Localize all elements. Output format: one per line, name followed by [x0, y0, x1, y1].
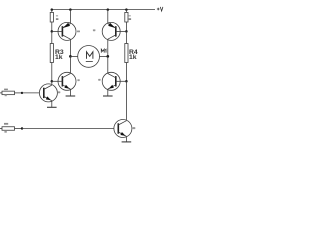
ground Q6	[122, 141, 132, 143]
transistor Q3 body circle	[58, 72, 76, 90]
transistor Q2 (PNP top-right, mirrored)	[93, 10, 127, 57]
resistor R1 body	[50, 12, 53, 22]
resistor R3 body	[50, 44, 53, 63]
node motor left junction	[69, 55, 72, 58]
label R1	[56, 15, 58, 16]
node motor right junction	[106, 55, 109, 58]
wire R2 top lead	[125, 10, 127, 13]
junction dot rail left	[51, 8, 54, 11]
junction dot rail Q1 emitter	[69, 8, 72, 11]
wire input1 to Q5 base	[22, 92, 44, 94]
wire node down to Q6 collector	[125, 81, 127, 121]
label connector 2 name	[4, 123, 8, 125]
transistor Q2 body circle	[102, 22, 120, 40]
resistor R2	[125, 10, 131, 22]
transistor Q4 body circle	[102, 72, 120, 90]
wire R1 to Q1 base node	[51, 22, 53, 31]
resistor R2 body	[125, 12, 128, 22]
wire connector 2 stub	[0, 128, 2, 130]
svg-text:1k: 1k	[129, 54, 137, 61]
label M1	[101, 49, 106, 52]
junction dot rail Q2 emitter	[107, 8, 110, 11]
label Q2	[93, 29, 96, 31]
wire R1 top lead	[51, 10, 53, 13]
resistor R4 body	[125, 44, 128, 63]
junction dot connector 1 pin	[21, 92, 23, 94]
value label 10k (R1)	[56, 18, 59, 20]
pin number 1 (connector 1)	[5, 95, 7, 96]
transistor Q5 body circle	[39, 84, 57, 102]
motor M symbol underline	[86, 61, 93, 63]
label Q5	[58, 91, 60, 93]
transistor Q1 (PNP top-left)	[52, 10, 80, 57]
connector input 2 body	[2, 127, 15, 131]
connector input 1 body	[2, 91, 15, 95]
wire input2 to Q6 base	[22, 128, 118, 130]
wire motor right lead	[100, 55, 108, 57]
label Q3	[77, 79, 79, 81]
wire Q5 emitter to ground	[51, 101, 53, 108]
node Q1 base junction	[51, 30, 54, 33]
ground Q3	[66, 95, 76, 97]
motor M1	[78, 46, 106, 68]
junction dot rail right	[125, 8, 128, 11]
resistor R1	[50, 10, 58, 22]
ground Q4	[103, 95, 113, 97]
pin number 1 (connector 2)	[4, 131, 6, 133]
transistor Q5 (NPN lower-left)	[39, 84, 60, 102]
label Q6	[133, 127, 136, 129]
node Q2 base junction	[125, 30, 128, 33]
ground Q5	[47, 106, 57, 108]
resistor R4	[125, 44, 138, 63]
transistor Q6 body circle	[114, 120, 132, 138]
wire Q3 emitter to ground	[69, 89, 71, 96]
label connector 1 name	[4, 89, 8, 91]
+V rail wire	[52, 9, 155, 11]
resistor R3	[50, 44, 64, 63]
label Q4	[98, 79, 100, 81]
node +V label	[157, 7, 163, 11]
wire node to R4	[125, 31, 127, 43]
value label 10k (R2)	[129, 18, 132, 20]
connector input 2	[0, 123, 23, 133]
wire connector 2 pin	[15, 128, 23, 130]
node Q3 base junction	[51, 80, 54, 83]
wire R3 to Q3 base node	[51, 63, 53, 82]
node Q4 base junction	[125, 80, 128, 83]
wire motor left lead	[70, 55, 77, 57]
svg-text:1k: 1k	[55, 54, 63, 61]
transistor Q6 (NPN bottom-right)	[114, 120, 135, 138]
wire connector 1 stub	[0, 92, 2, 94]
wire R2 to Q2 base node	[125, 22, 127, 31]
label Q1	[77, 31, 80, 33]
transistor Q4 (NPN mid-right, mirrored)	[98, 56, 126, 90]
wire node to R3	[51, 31, 53, 43]
wire connector 1 pin	[15, 92, 23, 94]
transistor Q1 body circle	[58, 22, 76, 40]
wire node down to Q5 collector	[51, 81, 53, 85]
wire Q6 emitter to ground	[125, 136, 127, 142]
motor M symbol letter	[87, 52, 93, 59]
connector input 1	[0, 89, 23, 97]
label R2	[129, 15, 131, 16]
wire R4 to Q4 base node	[125, 63, 127, 82]
junction dot connector 2 pin	[21, 127, 23, 129]
transistor Q3 (NPN mid-left)	[52, 56, 80, 90]
wire Q4 emitter to ground	[107, 89, 109, 96]
